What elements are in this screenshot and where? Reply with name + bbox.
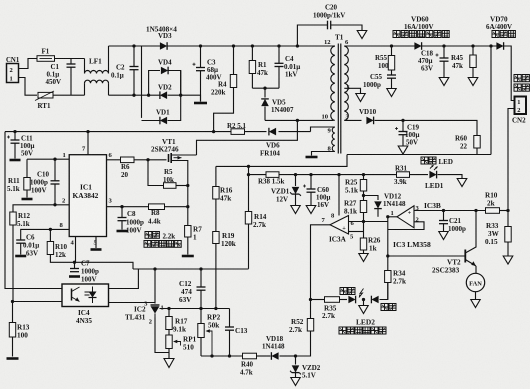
ground C55	[387, 89, 396, 97]
node drain pin10	[296, 119, 299, 122]
resistor R27	[344, 196, 367, 222]
node C60	[309, 173, 312, 176]
label red LED	[421, 157, 453, 166]
ground VZD1	[291, 206, 300, 214]
wire VD4 to right rail	[169, 71, 181, 96]
wire T1 pin3 out	[344, 119, 361, 121]
ground LED2	[359, 306, 368, 314]
wire R1 C4 bottom	[252, 87, 279, 89]
node C13 bottom	[228, 354, 231, 357]
node TL431 col	[153, 267, 156, 270]
wire red LED to R34	[380, 283, 388, 300]
node VD5 top	[263, 87, 266, 90]
node source R5	[186, 184, 189, 187]
wire IC4 lower left	[13, 301, 63, 303]
node C11 top	[13, 130, 16, 133]
node R14 top	[247, 165, 250, 168]
shunt reg IC2 TL431	[125, 301, 169, 326]
node R33 top	[506, 209, 509, 212]
line filter LF1	[85, 46, 109, 95]
wire VD18 to node	[280, 355, 296, 357]
wire bottom bus	[201, 355, 243, 357]
node source R8	[186, 205, 189, 208]
node R25 R27	[362, 194, 365, 197]
node pin7 rail	[86, 130, 89, 133]
op-amp IC3B	[391, 201, 441, 228]
wire gate node down	[148, 160, 164, 186]
capacitor C13	[225, 309, 248, 357]
capacitor C7	[70, 260, 99, 284]
wire VT2 collector	[475, 211, 477, 248]
diode VD2	[158, 84, 172, 100]
resistor R10 output	[485, 192, 500, 214]
label IC3 LM358	[393, 240, 431, 249]
wire left border	[5, 132, 62, 289]
node C7 top	[73, 261, 76, 264]
resistor R25	[345, 175, 367, 196]
ground R26	[359, 254, 368, 262]
diode VD18	[262, 335, 285, 360]
wire TL431 column	[154, 269, 156, 304]
resistor R11	[7, 159, 30, 197]
capacitor C10	[30, 159, 60, 205]
resistor R31	[394, 165, 410, 187]
thermistor RT1	[35, 91, 54, 110]
node AC2 C2	[132, 94, 135, 97]
wire top rail	[109, 45, 334, 47]
wire CN1 pin2 to F1	[19, 59, 38, 69]
node LED2 mid	[362, 298, 365, 301]
ground C18	[439, 78, 449, 86]
wire IC3A out	[311, 225, 331, 300]
wire VD70 to CN2 pin1	[504, 46, 515, 101]
ground bar R13	[7, 357, 19, 360]
wire ground stub	[168, 353, 170, 359]
resistor R7	[185, 207, 203, 255]
wire VT2 emitter to FAN	[475, 266, 477, 274]
label charging socket	[514, 75, 529, 92]
resistor R14	[245, 166, 266, 268]
node VD4 left	[147, 94, 150, 97]
wire T1 pin12	[334, 45, 335, 47]
LED LED2 red	[371, 296, 396, 311]
resistor R45	[451, 46, 476, 78]
resistor R33	[485, 211, 511, 257]
connector CN2	[512, 97, 526, 125]
lightning symbol	[359, 289, 364, 298]
diode VD5	[261, 88, 294, 120]
capacitor C2	[111, 46, 139, 95]
wire VD2 to C3 ground	[168, 95, 201, 101]
transistor VT1	[151, 138, 197, 163]
node C3 top	[199, 44, 202, 47]
wire C7 to fb bus	[75, 262, 134, 269]
label green	[340, 288, 355, 295]
wire IC3A pin6	[349, 221, 388, 223]
node R10b top	[49, 228, 52, 231]
wire TL431 anode	[155, 318, 169, 353]
wire rail to pin9	[279, 131, 311, 133]
ground bar IC1 pin5	[91, 248, 102, 251]
wire LED bus	[249, 174, 267, 176]
node R19 ref	[214, 307, 217, 310]
node C19 top	[401, 119, 404, 122]
node RP2 top	[199, 307, 202, 310]
capacitor C18	[418, 46, 449, 78]
LED LED1	[425, 165, 444, 190]
wire bus R38 to R31	[279, 174, 397, 176]
wire secondary gnd bus right	[347, 154, 491, 156]
wire VD1 row	[142, 120, 160, 122]
wire R31 to LED1	[410, 174, 429, 176]
wire gate	[148, 159, 167, 161]
ground C60	[306, 206, 316, 214]
diode VD1	[156, 109, 170, 125]
wire gnd bus step	[216, 155, 347, 167]
transistor VT2	[432, 247, 476, 275]
ground R33	[503, 256, 513, 264]
ground bar C3	[194, 102, 207, 105]
wire IC3A pin8	[338, 175, 340, 216]
node R5 left	[146, 158, 149, 161]
diode VD4	[158, 59, 172, 75]
ground T1 pin5	[356, 94, 365, 102]
wire rail right	[245, 131, 267, 133]
capacitor C60	[303, 175, 331, 209]
wire R35 to green LED	[340, 299, 348, 301]
wire AC neutral row	[109, 94, 160, 96]
resistor R10 osc	[47, 229, 74, 262]
node C10 top	[53, 158, 56, 161]
ground bar C8	[117, 230, 128, 233]
node R25 top	[362, 173, 365, 176]
node IC3A vplus	[337, 173, 340, 176]
transformer T1	[322, 34, 351, 154]
wire CN2 pin2 down	[508, 109, 515, 212]
node C4 top	[277, 44, 280, 47]
optocoupler IC4	[62, 284, 109, 325]
capacitor C1	[46, 59, 76, 96]
ground bar T1 pin8	[306, 156, 318, 159]
node bus start	[247, 173, 250, 176]
wire T1 pin6 rail	[344, 45, 511, 47]
wire T1 pin5 to ground	[344, 88, 360, 93]
ground LED1	[457, 179, 467, 187]
wire R16 column top	[215, 166, 217, 186]
wire main rail	[5, 131, 231, 133]
ground R45	[468, 78, 478, 86]
capacitor C12	[179, 269, 206, 309]
wire IC3B pin2 fb	[388, 222, 424, 230]
node IC3B out	[386, 215, 389, 218]
IC IC1 KA3842	[60, 146, 113, 247]
node RP2 wiper bottom	[210, 354, 213, 357]
node R45 top	[471, 44, 474, 47]
fuse F1	[37, 48, 55, 62]
node VZD2	[294, 354, 297, 357]
resistor R34	[385, 256, 406, 300]
wire IC4 right top	[109, 269, 139, 289]
wire VD70 node down	[490, 46, 492, 155]
ground bar C11	[10, 159, 21, 162]
wire ref bus	[169, 308, 230, 310]
op-amp IC3A	[322, 213, 355, 244]
node VD2 right	[179, 94, 182, 97]
diode VD12	[374, 193, 406, 217]
wire CN1 pin1 to RT1	[19, 78, 38, 96]
capacitor C11	[7, 132, 35, 159]
node C12 top	[199, 267, 202, 270]
node C20 tap	[296, 44, 299, 47]
node C10 bottom	[53, 203, 56, 206]
wire IC3B pin3	[414, 210, 508, 212]
connector CN1	[6, 57, 20, 83]
wire R10 right	[500, 210, 509, 212]
label LED2	[339, 318, 386, 335]
label two 2.2k note	[144, 232, 181, 248]
node VT2 collector tap	[474, 209, 477, 212]
LED LED2 green	[348, 296, 355, 304]
wire IC3A pin5	[349, 231, 364, 233]
node R4 rail	[212, 130, 215, 133]
wire bridge left rail	[141, 46, 143, 118]
diode VD6	[260, 128, 280, 158]
resistor R38	[258, 172, 285, 186]
diode VD60	[393, 16, 449, 50]
ground C20	[357, 31, 367, 39]
wire source down	[187, 186, 189, 207]
wire RT1 to C1 bottom	[53, 94, 85, 96]
wire VD1 to right rail	[168, 71, 181, 121]
wire IC1 pin4	[75, 237, 77, 263]
wire VT1 drain	[197, 120, 298, 155]
resistor R60	[455, 135, 480, 155]
wire IC3B out	[388, 216, 397, 218]
resistor R52	[289, 300, 314, 357]
wire fb bus	[133, 268, 249, 270]
resistor R19	[213, 232, 236, 310]
capacitor C20	[297, 4, 362, 47]
diode VD10	[359, 108, 377, 124]
ground FAN	[471, 300, 480, 308]
node VD70 anode	[489, 44, 492, 47]
resistor R2	[227, 122, 247, 134]
capacitor C21	[439, 211, 466, 234]
wire VT1 source	[181, 161, 188, 186]
ground C19	[398, 146, 408, 154]
resistor R55	[375, 46, 395, 75]
potentiometer RP1	[166, 330, 197, 353]
ground bar R7	[182, 255, 194, 258]
zener diode VZD1	[271, 175, 301, 206]
node LED2 left	[309, 298, 312, 301]
wire VD5 to T1 pin10	[265, 119, 334, 121]
ground VZD2	[291, 378, 300, 386]
node R1 top	[251, 44, 254, 47]
resistor R16	[213, 187, 233, 232]
resistor R13	[9, 302, 29, 357]
wire VT2 base	[388, 255, 465, 257]
capacitor C3	[193, 46, 222, 102]
wire IC1 pin6	[107, 159, 121, 161]
wire T1 pin9	[311, 127, 335, 132]
ground bar C6	[15, 255, 26, 258]
resistor R5	[163, 168, 188, 188]
ground C21	[439, 232, 448, 240]
node VZD1	[294, 173, 297, 176]
node C2 top	[132, 44, 135, 47]
wire R26 top	[363, 222, 365, 239]
wire F1 to C1	[55, 58, 85, 60]
wire T1 pin8 to ground	[312, 152, 335, 156]
wire IC1 pin7	[87, 132, 89, 155]
node R27 pin6	[362, 220, 365, 223]
wire IC1 pin2	[13, 205, 69, 212]
wire LED2 mid to ground	[363, 300, 365, 306]
node C18 top	[442, 44, 445, 47]
wire VD4 row	[149, 71, 160, 96]
wire IC4 right bottom	[109, 302, 156, 304]
label 1N5408x4	[146, 26, 177, 34]
resistor R4	[211, 46, 237, 132]
node R13 top	[11, 300, 14, 303]
wire IC1 pin3	[107, 206, 149, 208]
capacitor C8	[118, 207, 145, 235]
node C8 top	[120, 205, 123, 208]
diode VD70	[486, 16, 515, 50]
capacitor C55	[363, 73, 396, 89]
resistor R1	[249, 46, 268, 88]
resistor R6	[121, 157, 149, 179]
resistor R26	[360, 237, 380, 254]
node R34 top	[386, 254, 389, 257]
capacitor C4	[275, 46, 301, 88]
wire IC1 pin8	[21, 229, 69, 240]
wire FAN to ground	[475, 292, 477, 300]
node R55 top	[390, 44, 393, 47]
ground bar C7	[69, 275, 80, 278]
resistor R35	[311, 297, 340, 320]
node ref node	[167, 307, 170, 310]
wire IC3B out down	[387, 217, 389, 256]
resistor R17	[166, 309, 188, 334]
diode VD3	[158, 32, 172, 50]
fan FAN	[466, 273, 484, 291]
capacitor C6	[16, 234, 39, 258]
ground bar R11	[22, 198, 33, 201]
wire VD12 top	[364, 196, 379, 201]
node C21 top	[442, 209, 445, 212]
capacitor C19	[395, 120, 420, 146]
wire LED1 to ground	[438, 175, 463, 179]
wire IC1 pin5	[95, 237, 97, 249]
wire IC1 pin1	[27, 158, 69, 160]
zener diode VZD2	[290, 356, 321, 380]
ground RP1	[164, 359, 174, 368]
node R4 top	[232, 44, 235, 47]
wire VD10 to R60	[375, 120, 478, 135]
potentiometer RP2	[198, 309, 221, 357]
resistor R12	[10, 212, 31, 302]
resistor R8	[148, 204, 188, 226]
resistor R40	[240, 353, 271, 376]
